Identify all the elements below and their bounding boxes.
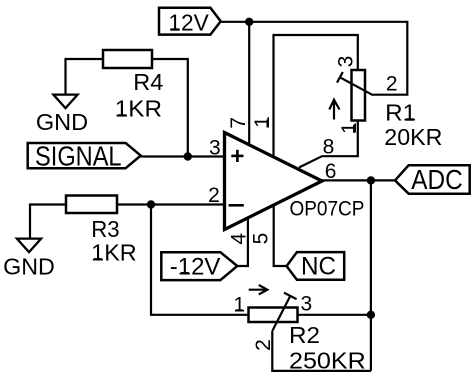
wire pin 5 to NC: [274, 206, 287, 267]
svg-text:GND: GND: [36, 109, 88, 135]
wire 12V tip to junction: [221, 21, 250, 23]
svg-text:1: 1: [251, 116, 274, 128]
node junction 12V/pin7: [245, 18, 253, 26]
svg-text:R1: R1: [385, 100, 416, 126]
wire R2 right to output node: [298, 314, 371, 316]
ground GND1: [36, 95, 88, 136]
svg-text:SIGNAL: SIGNAL: [35, 140, 122, 171]
wire down to R2: [151, 205, 249, 315]
wire R3 left to GND: [30, 205, 66, 240]
ground GND2: [3, 239, 55, 280]
wire junction to top-right corner: [249, 22, 407, 95]
svg-text:3: 3: [209, 136, 221, 159]
svg-text:R4: R4: [133, 69, 163, 95]
svg-text:250KR: 250KR: [289, 347, 366, 373]
power flag -12V: [161, 252, 237, 280]
global label SIGNAL: [28, 140, 141, 171]
svg-text:20KR: 20KR: [384, 124, 442, 150]
svg-text:2: 2: [208, 184, 220, 207]
minus symbol: [229, 204, 244, 207]
wire pin 8 diagonal to R1 bottom: [299, 121, 358, 168]
wire R3 right to pin 2: [117, 203, 225, 205]
plus symbol: [231, 150, 243, 162]
wire pin 4 to -12V: [237, 218, 248, 266]
svg-text:1: 1: [233, 294, 245, 317]
svg-text:OP07CP: OP07CP: [290, 197, 365, 221]
flag NC: [287, 252, 345, 281]
global label ADC: [395, 164, 470, 195]
wire R2 wiper loop bottom: [272, 331, 371, 371]
svg-text:12V: 12V: [168, 10, 209, 36]
R1 wiper: [337, 72, 373, 95]
op-amp U1 OP07CP: [225, 133, 365, 230]
node junction signal/R4: [184, 152, 192, 160]
trim pot R2 250KR: [249, 308, 366, 374]
wire SIGNAL to pin 3: [141, 155, 225, 157]
R2 adjust arrow: [249, 285, 268, 294]
svg-text:8: 8: [323, 136, 335, 159]
svg-text:1: 1: [338, 122, 361, 134]
resistor R4: [103, 50, 164, 122]
svg-text:NC: NC: [301, 253, 336, 281]
node junction R3/R2: [147, 200, 155, 208]
trim pot R1 20KR: [352, 70, 443, 150]
svg-text:2: 2: [386, 73, 398, 96]
wire pin 1 up over to R1 top: [274, 35, 358, 157]
R1 adjust arrow: [329, 100, 339, 120]
svg-text:R2: R2: [289, 322, 320, 348]
wire R4 right to signal node: [152, 59, 188, 157]
wire pin 7 vertical: [248, 22, 250, 146]
wire output down to R2: [370, 180, 372, 371]
R2 wiper: [272, 293, 296, 331]
svg-text:1KR: 1KR: [115, 96, 162, 122]
svg-text:3: 3: [300, 292, 312, 315]
power flag 12V: [159, 8, 221, 36]
node junction R2/output: [367, 311, 375, 319]
resistor R3: [66, 196, 137, 266]
svg-text:5: 5: [249, 233, 272, 245]
svg-text:-12V: -12V: [170, 253, 221, 280]
node junction output: [367, 176, 375, 184]
svg-text:1KR: 1KR: [91, 240, 137, 266]
svg-text:7: 7: [227, 117, 250, 129]
svg-text:GND: GND: [3, 253, 55, 279]
svg-text:3: 3: [335, 56, 358, 68]
wire pin 6 to ADC: [322, 179, 395, 181]
svg-text:R3: R3: [91, 216, 119, 242]
wire R4 left to GND: [66, 59, 104, 95]
svg-text:ADC: ADC: [411, 164, 462, 195]
